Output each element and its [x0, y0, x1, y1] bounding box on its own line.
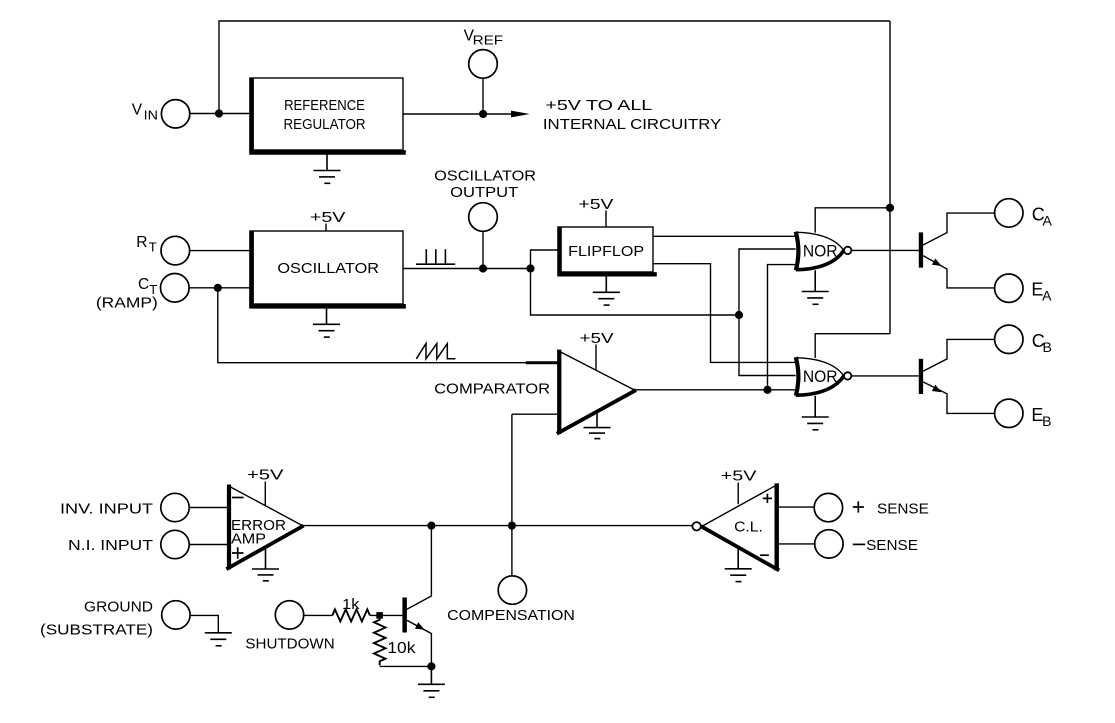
wire regulator output with arrow	[403, 113, 511, 115]
label RT	[136, 234, 157, 255]
terminal CB	[995, 325, 1023, 353]
terminal VREF	[469, 50, 498, 79]
label CT	[138, 276, 157, 297]
wire +5V stem oscillator	[325, 224, 327, 232]
wire error amp output	[303, 525, 693, 527]
oscillator U2 box	[249, 231, 405, 309]
svg-text:GROUND: GROUND	[84, 600, 153, 616]
terminal shutdown	[275, 601, 303, 629]
svg-text:OSCILLATOR: OSCILLATOR	[434, 169, 536, 185]
label VIN	[132, 101, 158, 122]
svg-text:10k: 10k	[387, 640, 415, 657]
label minus of minus sense	[853, 543, 865, 545]
wire CT ramp to comparator	[218, 288, 526, 363]
node junction emitter ground	[427, 662, 435, 670]
wire INV input	[189, 507, 228, 509]
wire oscillator output terminal stem	[482, 231, 484, 268]
ground below flipflop	[593, 277, 620, 306]
node junction at V_IN	[215, 109, 223, 117]
svg-text:AMP: AMP	[231, 531, 266, 547]
svg-text:R: R	[136, 234, 147, 251]
flipflop U3 box	[557, 227, 657, 277]
svg-text:A: A	[1042, 288, 1052, 304]
NOR gate U4A	[796, 232, 852, 271]
svg-text:+5V: +5V	[580, 331, 614, 347]
label error amp	[231, 518, 286, 547]
label oscillator output terminal	[434, 169, 536, 201]
wire +5V stem comparator	[595, 345, 597, 371]
svg-text:NOR: NOR	[803, 241, 838, 260]
wire VIN to regulator	[190, 113, 250, 115]
svg-text:T: T	[149, 240, 157, 255]
terminal INV input	[161, 493, 189, 521]
ground below NOR B	[802, 396, 829, 430]
wire RT to oscillator	[190, 250, 250, 252]
label plus of plus sense	[853, 501, 864, 512]
node junction compensation	[508, 522, 516, 530]
wire compensation vertical	[511, 414, 513, 576]
wire shutdown to resistor	[304, 614, 333, 616]
wire 10k bottom to emitter	[380, 665, 432, 667]
svg-text:REGULATOR: REGULATOR	[284, 117, 366, 133]
label +5V to all internal circuitry	[543, 98, 722, 133]
wire flipflop output Q to NOR A	[653, 235, 796, 237]
wire ground substrate	[190, 615, 218, 632]
transistor Q1	[919, 213, 995, 288]
label EA	[1031, 280, 1052, 304]
terminal EA	[995, 274, 1023, 302]
label CA	[1032, 204, 1053, 228]
terminal compensation	[498, 576, 526, 604]
svg-text:1k: 1k	[342, 597, 360, 613]
resistor R2 10k	[374, 619, 386, 666]
ground below Q3	[418, 666, 445, 697]
svg-text:+5V: +5V	[310, 210, 346, 226]
NOR gate U4B	[796, 357, 852, 396]
resistor R1 1k	[332, 609, 369, 621]
svg-text:B: B	[1042, 413, 1051, 429]
wire blanking to NOR A input	[739, 249, 796, 315]
label EB	[1031, 405, 1051, 429]
svg-text:+5V: +5V	[578, 197, 614, 213]
wire compensation to comparator input	[512, 413, 558, 415]
ground below reference regulator	[314, 155, 341, 184]
wire blanking drop	[531, 269, 740, 316]
pulse waveform symbol	[416, 249, 455, 264]
wire to Q3 base	[370, 614, 403, 616]
sawtooth waveform symbol	[416, 344, 455, 359]
svg-text:REFERENCE: REFERENCE	[284, 98, 365, 114]
svg-text:V: V	[132, 101, 143, 118]
wire blanking to NOR B input	[739, 315, 796, 376]
svg-text:REF: REF	[473, 33, 504, 48]
label plus current limit	[763, 494, 772, 503]
terminal RT	[161, 236, 190, 265]
wire right bus vertical	[889, 21, 891, 334]
svg-text:(RAMP): (RAMP)	[96, 296, 158, 312]
label VREF	[464, 27, 504, 47]
wire NOR B output to Q2 base	[852, 375, 919, 377]
svg-text:B: B	[1043, 339, 1052, 355]
terminal oscillator output	[469, 203, 498, 232]
node junction at VREF	[479, 110, 487, 118]
label minus current limit	[760, 554, 769, 556]
svg-text:SENSE: SENSE	[877, 502, 929, 518]
svg-text:IN: IN	[144, 108, 158, 123]
ground below NOR A	[802, 270, 829, 304]
node junction shutdown collector	[427, 522, 435, 530]
node junction comparator line	[763, 386, 771, 394]
terminal VIN	[161, 100, 189, 128]
svg-text:INTERNAL CIRCUITRY: INTERNAL CIRCUITRY	[543, 117, 722, 133]
wire +5V stem current limit	[737, 483, 739, 505]
svg-text:A: A	[1043, 212, 1053, 228]
wire NOR A output to Q1 base	[852, 249, 919, 251]
svg-text:COMPENSATION: COMPENSATION	[447, 608, 575, 624]
wire CT to oscillator	[189, 287, 250, 289]
svg-text:SHUTDOWN: SHUTDOWN	[245, 637, 334, 653]
node junction at oscillator output terminal	[479, 264, 487, 272]
svg-text:C: C	[138, 276, 149, 293]
wire VREF stem	[482, 78, 484, 114]
terminal NI input	[161, 530, 189, 558]
arrowhead +5V to internal	[511, 111, 530, 118]
svg-text:(SUBSTRATE): (SUBSTRATE)	[40, 623, 153, 639]
label reference regulator	[284, 98, 366, 133]
node junction shutdown base	[376, 612, 383, 619]
label plus error amp	[232, 547, 244, 558]
wire NI input	[189, 544, 228, 546]
wire thick lead into comparator	[526, 361, 558, 364]
node junction at flipflop branch	[526, 264, 534, 272]
comparator U5	[557, 350, 636, 434]
terminal ground substrate	[162, 601, 190, 629]
svg-text:INV. INPUT: INV. INPUT	[60, 502, 153, 518]
wire minus sense	[778, 543, 815, 545]
ground below oscillator	[313, 309, 340, 338]
wire plus sense	[778, 506, 814, 508]
ground below current limit	[725, 549, 752, 582]
terminal CT	[161, 274, 190, 303]
wire flipflop output Qbar to NOR B	[653, 264, 796, 363]
wire oscillator output	[403, 268, 531, 270]
wire top bus to NOR A top	[815, 208, 890, 233]
node junction blanking line	[735, 311, 743, 319]
ground below error amp	[252, 547, 279, 581]
svg-text:NOR: NOR	[803, 367, 838, 386]
transistor Q3	[402, 526, 431, 667]
current limit amp U7	[692, 483, 779, 570]
label ground	[40, 600, 153, 639]
terminal EB	[995, 399, 1023, 427]
wire bus to NOR B top	[815, 334, 890, 358]
svg-text:OUTPUT: OUTPUT	[450, 185, 518, 201]
wire to flipflop input	[531, 250, 559, 269]
error amp U6	[226, 485, 303, 570]
svg-text:C.L.: C.L.	[734, 519, 763, 535]
wire +5V stem flipflop	[605, 211, 607, 228]
transistor Q2	[919, 339, 995, 413]
wire comparator output to NOR B	[635, 389, 796, 391]
reference regulator U1 box	[249, 78, 405, 155]
label CB	[1032, 331, 1052, 355]
svg-text:N.I. INPUT: N.I. INPUT	[68, 538, 153, 554]
wire comparator branch to NOR A input	[768, 265, 796, 390]
wire V_IN riser and top bus	[219, 21, 890, 114]
svg-text:FLIPFLOP: FLIPFLOP	[568, 244, 644, 260]
label minus error amp	[232, 497, 244, 499]
node junction at CT	[214, 284, 222, 292]
svg-text:COMPARATOR: COMPARATOR	[434, 382, 550, 398]
terminal minus sense	[815, 530, 843, 558]
svg-text:SENSE: SENSE	[866, 538, 918, 554]
svg-text:+5V TO ALL: +5V TO ALL	[545, 98, 652, 114]
node junction top bus to NOR A	[886, 204, 894, 212]
wire +5V stem error amp	[264, 482, 266, 507]
terminal CA	[995, 199, 1023, 227]
terminal plus sense	[814, 493, 842, 521]
svg-text:+5V: +5V	[721, 469, 757, 485]
ground symbol substrate	[205, 633, 232, 646]
ground below comparator	[584, 412, 611, 439]
svg-text:OSCILLATOR: OSCILLATOR	[277, 261, 379, 277]
svg-text:+5V: +5V	[247, 467, 284, 483]
